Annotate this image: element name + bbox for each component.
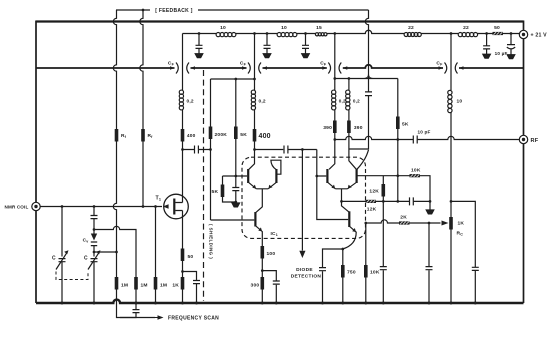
wire 2K bypass column <box>428 223 430 303</box>
node collector node junctions <box>253 148 304 151</box>
svg-text:300: 300 <box>251 283 260 289</box>
svg-text:DIODE: DIODE <box>296 267 313 273</box>
wire emitter chain to ground <box>261 259 263 304</box>
ground detector <box>426 201 434 214</box>
resistor 400 drain load <box>181 129 185 142</box>
inductor 0,2 choke section3 <box>251 90 255 110</box>
capacitor supply bypass 4 <box>483 34 490 55</box>
svg-text:10: 10 <box>457 99 463 105</box>
ground supply bypass 2 <box>263 54 271 58</box>
svg-text:10: 10 <box>281 25 287 31</box>
capacitor frequency scan bypass <box>120 303 140 318</box>
svg-text:10: 10 <box>220 25 226 31</box>
wire Q3 base drive <box>317 150 348 220</box>
resistor 1K Rc <box>449 217 453 230</box>
wire supply drop section4b <box>348 79 350 150</box>
inductor 0,2 choke section4b <box>346 90 350 110</box>
capacitor 10uF electrolytic <box>507 34 515 55</box>
inductor 0,2 choke section4a <box>332 90 336 110</box>
svg-text:22: 22 <box>463 25 469 31</box>
svg-text:50: 50 <box>494 25 500 31</box>
wire left border shield box <box>35 21 37 304</box>
svg-text:750: 750 <box>347 270 356 276</box>
wire drain coupling <box>183 149 211 151</box>
terminal NMR coil <box>32 202 40 210</box>
wire supply branch section3 <box>211 78 255 80</box>
svg-text:+ 21 V: + 21 V <box>531 33 548 39</box>
transistor T1 FET <box>163 194 189 219</box>
node emitter tap junction <box>340 200 343 203</box>
capacitor emitter bypass b <box>319 268 326 271</box>
ground base network <box>232 203 240 207</box>
wire feedback vertical 3 (from output stage) <box>349 10 369 149</box>
resistor 5K bias <box>234 127 238 140</box>
capacitor C variable 2 <box>91 259 98 303</box>
resistor 10K bottom <box>364 265 368 278</box>
wire inner shield wall horizontal <box>36 65 524 68</box>
wire T1 drain <box>182 150 184 203</box>
wire common emitter pair2 <box>335 189 348 212</box>
wire supply drop section4a <box>334 34 336 140</box>
svg-text:400: 400 <box>187 133 196 139</box>
resistor 390 load b <box>347 121 351 134</box>
resistor 400 collector load <box>253 129 257 142</box>
capacitor output bypass <box>472 267 479 270</box>
resistor 12K horizontal <box>366 200 377 203</box>
node feedback tap <box>142 9 145 12</box>
svg-text:DETECTION: DETECTION <box>291 274 322 280</box>
node emitter junction <box>261 269 264 272</box>
capacitor fixed divider top <box>91 207 98 234</box>
node tank junctions <box>93 228 118 253</box>
svg-text:( SHIELDING ): ( SHIELDING ) <box>209 224 214 259</box>
wire feedback takeoff bus <box>335 78 398 80</box>
transistor Q4 <box>348 149 369 189</box>
feedthrough capacitor CF1 <box>170 63 195 74</box>
wire common emitter pair1 <box>256 189 268 213</box>
inductor 10 (supply filter 2) <box>277 33 297 37</box>
resistor 750 <box>341 265 345 278</box>
wire +21V supply distribution line <box>183 30 520 33</box>
svg-text:15: 15 <box>316 25 322 31</box>
wire detector node line <box>342 200 431 202</box>
svg-text:10 pF: 10 pF <box>418 130 431 135</box>
capacitor source bypass <box>193 281 200 284</box>
svg-text:5K: 5K <box>402 122 409 128</box>
terminal RF <box>519 135 527 143</box>
wire 2K line <box>366 220 441 223</box>
ground supply bypass 3 <box>301 54 309 58</box>
node gate junctions <box>61 205 157 208</box>
svg-text:10 µF: 10 µF <box>495 51 508 56</box>
wire divider tap to 1M column <box>94 226 136 277</box>
svg-text:12K: 12K <box>367 207 377 213</box>
wire feedback merge fillets <box>364 74 373 78</box>
wire varactor tap to feedback1 <box>94 251 117 253</box>
wire Q1 base network <box>223 176 248 202</box>
wire top rail shield box top <box>36 20 524 22</box>
transistor Q2 diode-connected <box>268 160 281 189</box>
varactor Cv <box>91 234 97 257</box>
arrow diode detection <box>299 251 305 258</box>
capacitor drain coupling <box>195 146 199 154</box>
svg-text:1K: 1K <box>172 283 179 289</box>
inductor 22 (supply filter 5) <box>458 33 477 37</box>
wire 12K-10K node line <box>357 176 430 202</box>
wire source bypass branch <box>183 272 197 304</box>
wire 12K vertical column <box>382 176 384 303</box>
capacitor supply bypass 2 <box>264 34 271 54</box>
resistor 1M (scan feed 2) <box>134 277 138 303</box>
wire 200K column <box>210 79 212 220</box>
capacitor interstage coupling <box>284 146 288 154</box>
resistor Rf1 <box>115 129 119 142</box>
node Q3 base junction <box>315 175 318 178</box>
wire right border shield box <box>523 21 525 304</box>
svg-text:0,2: 0,2 <box>259 99 266 105</box>
svg-text:C: C <box>52 256 56 262</box>
node 2K junctions <box>364 222 430 225</box>
svg-text:1M: 1M <box>121 283 128 289</box>
resistor 1K source <box>181 277 185 290</box>
svg-text:1K: 1K <box>458 221 465 227</box>
capacitor feedback series <box>365 92 372 96</box>
wire supply drop section3 <box>254 34 256 150</box>
wire RF output line <box>335 136 520 139</box>
resistor 5K emitter-ground <box>221 185 225 198</box>
resistor 390 load a <box>333 121 337 134</box>
svg-text:0,2: 0,2 <box>187 99 194 105</box>
resistor 1M (gate leak) <box>154 207 158 304</box>
ground 10uF <box>507 55 515 59</box>
svg-text:5K: 5K <box>212 189 219 195</box>
capacitor 2K bypass <box>426 267 433 270</box>
svg-text:100: 100 <box>267 251 276 257</box>
resistor 10K horizontal <box>410 174 421 177</box>
svg-text:1M: 1M <box>141 283 148 289</box>
arrow variable capacitor 2 <box>88 253 99 270</box>
svg-text:0,2: 0,2 <box>339 99 346 104</box>
wire supply drop section2 <box>182 34 184 150</box>
resistor 200K <box>209 127 213 140</box>
wire ganged tuning dashed <box>56 272 88 280</box>
transistor Q5a current source <box>211 212 263 246</box>
svg-text:5K: 5K <box>240 132 247 138</box>
ground supply bypass 1 <box>195 54 203 58</box>
node source junction <box>181 270 184 273</box>
capacitor 12K column bypass <box>380 267 387 270</box>
inductor 15 (supply filter 3) <box>315 33 327 36</box>
feedthrough capacitor CF3 <box>322 63 347 74</box>
svg-text:200K: 200K <box>215 132 228 138</box>
node emitter b junction <box>341 248 344 251</box>
inductor 0,2 drain choke <box>179 90 183 110</box>
wire output supply column 10 choke <box>450 34 452 304</box>
node RF line junctions <box>333 138 399 141</box>
node drain and coupling junctions <box>181 148 212 151</box>
node detector junctions <box>382 174 431 202</box>
transistor Q3 <box>327 140 335 189</box>
transistor Q1 <box>248 150 256 189</box>
capacitor base bypass <box>232 188 239 191</box>
resistor Rf2 <box>141 129 145 142</box>
svg-text:2K: 2K <box>400 214 407 220</box>
svg-text:0,2: 0,2 <box>353 99 360 104</box>
inductor 10 output choke <box>448 90 452 112</box>
resistor 50 source <box>181 249 185 262</box>
capacitor 10pF <box>413 136 417 144</box>
svg-text:390: 390 <box>354 125 363 131</box>
ground supply bypass 4 <box>483 54 491 58</box>
node feedback bus junctions <box>198 32 513 80</box>
svg-text:FREQUENCY SCAN: FREQUENCY SCAN <box>168 316 219 322</box>
resistor 100 emitter <box>261 246 265 259</box>
resistor 5K output <box>396 117 400 130</box>
wire emitter bypass branch <box>262 271 276 303</box>
svg-text:50: 50 <box>188 254 194 260</box>
svg-text:390: 390 <box>323 125 332 131</box>
wire Q5b emitter chain <box>342 249 344 303</box>
node supply branch junctions <box>234 78 255 204</box>
svg-text:NMR COIL: NMR COIL <box>5 204 29 209</box>
svg-text:10K: 10K <box>411 167 421 173</box>
wire feedback vertical 2 (to gate) <box>140 10 143 207</box>
label DIODE DETECTION <box>291 267 322 280</box>
terminal +21V <box>519 30 527 38</box>
arrow frequency scan <box>155 317 163 319</box>
wire emitter bypass b <box>323 249 343 303</box>
wire feedback top line <box>116 9 369 11</box>
arrow variable capacitor 1 <box>56 253 67 270</box>
feedthrough capacitor CF2 <box>242 63 267 74</box>
capacitor emitter bypass <box>273 281 280 284</box>
node Rc junction <box>450 200 453 203</box>
wire gate line from NMR coil <box>40 206 162 208</box>
svg-text:1M: 1M <box>160 283 167 289</box>
resistor 1M (scan feed 1) <box>115 277 119 290</box>
wire bottom rail ground bus <box>36 300 524 303</box>
capacitor supply bypass 3 <box>302 34 309 54</box>
resistor 2K <box>399 221 410 224</box>
feedthrough capacitor CF4 <box>439 63 464 74</box>
transistor Q5b current source <box>343 211 356 249</box>
capacitor supply bypass 1 <box>196 34 203 54</box>
label FEEDBACK <box>150 6 198 15</box>
capacitor detector node <box>410 197 414 205</box>
resistor 300 <box>261 277 265 290</box>
inductor 22 (supply filter 4) <box>404 33 421 37</box>
wire shield partition dashed vertical <box>203 70 205 301</box>
svg-text:400: 400 <box>259 133 271 140</box>
wire 10K bottom column <box>365 223 367 303</box>
wire 5K output column <box>397 79 399 202</box>
wire T1 source <box>182 211 184 304</box>
capacitor C variable 1 <box>59 207 66 304</box>
svg-text:[ FEEDBACK ]: [ FEEDBACK ] <box>155 8 193 14</box>
resistor 12K vertical <box>382 184 386 197</box>
svg-text:C: C <box>84 256 88 262</box>
wire Q1 collector node coupling <box>255 149 317 151</box>
wire feedback vertical 1 (to tank tap) <box>113 10 155 318</box>
wire 5K bias column <box>235 79 237 202</box>
svg-text:22: 22 <box>408 25 414 31</box>
wire diode detection takeoff <box>301 150 303 251</box>
svg-text:12K: 12K <box>369 189 379 195</box>
node bottom rail junctions <box>61 302 477 305</box>
svg-text:10K: 10K <box>370 270 380 276</box>
wire Rc top branch <box>451 201 475 303</box>
svg-text:RF: RF <box>531 138 539 144</box>
resistor 50 (supply series) <box>493 32 504 35</box>
arrow 2K to Rc <box>442 221 449 226</box>
wire IC1 box dashed outline <box>242 157 366 238</box>
inductor 10 (supply filter 1) <box>216 33 236 37</box>
